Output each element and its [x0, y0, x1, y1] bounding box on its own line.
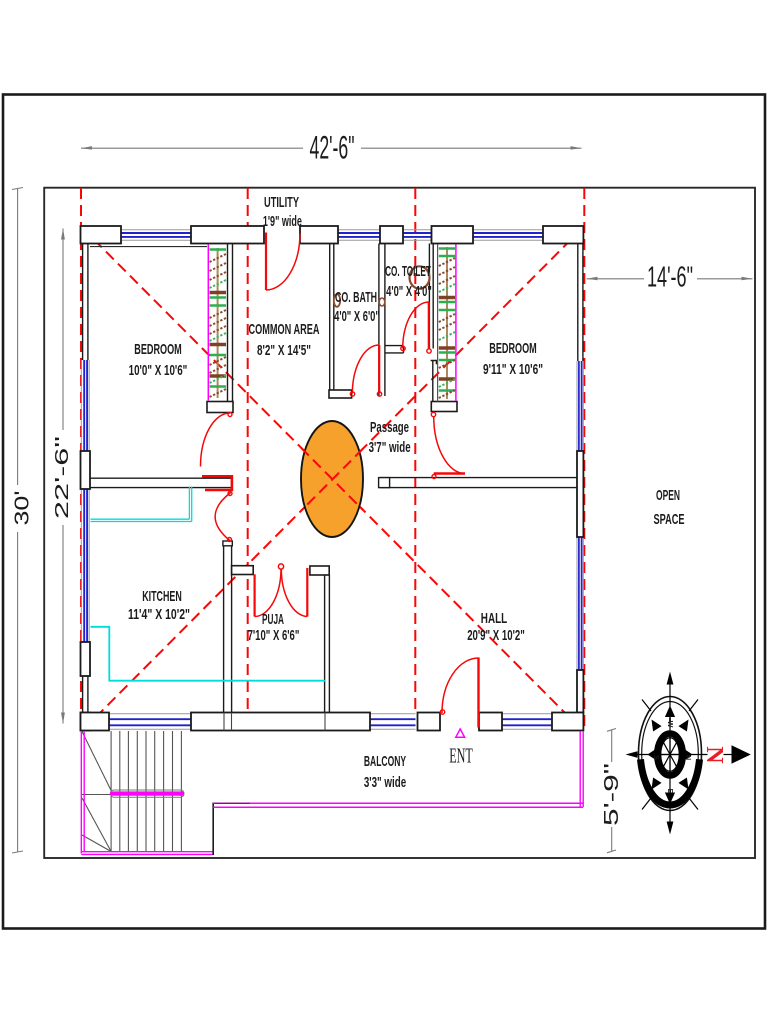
- dimension 14'-6" line: [587, 278, 645, 280]
- svg-text:SPACE: SPACE: [654, 511, 685, 528]
- middle wall left (bedroom1/kitchen): [90, 477, 232, 479]
- svg-text:OPEN: OPEN: [656, 487, 680, 504]
- wardrobe2 green hatch: [439, 284, 455, 387]
- plot boundary: [44, 188, 755, 858]
- vastu grid red dashed vertical 2: [247, 188, 249, 712]
- compass tiny letters: [652, 721, 691, 794]
- utility door swing: [266, 234, 300, 291]
- compass outer ellipse: [639, 697, 702, 811]
- staircase mid landing rail: [111, 790, 185, 797]
- bottom wall windows (blue): [109, 719, 552, 725]
- wardrobe1 end cap: [207, 402, 233, 413]
- left wall windows (blue): [84, 360, 87, 642]
- passage wall end red frame: [202, 476, 232, 490]
- toilet door leaf: [428, 302, 430, 348]
- svg-text:PUJA: PUJA: [262, 611, 284, 628]
- svg-text:UTILITY: UTILITY: [264, 194, 299, 211]
- bedroom2 door leaf: [434, 472, 465, 475]
- puja north jamb right: [310, 566, 329, 575]
- toilet door swing: [403, 302, 429, 348]
- kitchen counter cyan upper: [91, 487, 192, 522]
- svg-text:1'9" wide: 1'9" wide: [263, 213, 302, 230]
- compass second ellipse: [642, 702, 699, 806]
- compass hub spokes: [661, 738, 680, 772]
- wardrobe2 green bars: [439, 249, 455, 391]
- svg-text:22'-6": 22'-6": [52, 436, 72, 519]
- entrance marker triangle: [456, 729, 465, 737]
- brahmasthan orange ellipse: [301, 421, 363, 537]
- svg-text:14'-6": 14'-6": [647, 262, 693, 294]
- svg-text:CO. TOILET: CO. TOILET: [385, 263, 431, 280]
- staircase winder treads: [82, 732, 111, 852]
- small fixture near divider: [379, 298, 385, 306]
- compass vertical axis: [669, 684, 671, 822]
- dimension 30' line: [17, 189, 19, 485]
- junction lines on long bottom block: [224, 713, 325, 731]
- svg-text:5'-9": 5'-9": [600, 763, 623, 826]
- staircase magenta bottom edge: [81, 851, 212, 853]
- svg-text:Passage: Passage: [370, 419, 409, 436]
- vastu red dashed diagonal TL-BR: [82, 228, 583, 732]
- middle wall right (hall north): [380, 477, 577, 479]
- wardrobe2 brown hatch: [439, 258, 455, 398]
- svg-text:10'0" X 10'6": 10'0" X 10'6": [129, 362, 188, 379]
- wardrobe1 brown bars: [210, 293, 227, 377]
- wall co.bath west: [329, 244, 331, 391]
- wall bedroom1/common area: [227, 244, 229, 402]
- svg-text:CO. BATH: CO. BATH: [335, 289, 377, 306]
- right wall windows (blue): [579, 361, 582, 670]
- wardrobe2 end cap: [431, 402, 457, 412]
- red dashed diagonals over ellipse: [301, 448, 363, 511]
- right wall plain segments: [578, 244, 583, 362]
- utility door leaf: [265, 233, 267, 291]
- top wall window sills (gray): [121, 230, 543, 240]
- wall toilet east: [428, 244, 430, 349]
- puja double door left swing: [255, 569, 281, 617]
- wardrobe2 pole: [446, 247, 448, 399]
- compass big east arrow: [732, 745, 751, 763]
- wardrobe1 green hatch: [210, 280, 227, 383]
- svg-text:N: N: [701, 746, 727, 764]
- wardrobe2 magenta edge: [455, 245, 457, 402]
- left wall window sills: [81, 360, 89, 642]
- balcony parapet magenta: [213, 802, 583, 804]
- compass hub rim: [661, 738, 680, 772]
- svg-text:HALL: HALL: [481, 610, 507, 627]
- svg-text:BALCONY: BALCONY: [364, 753, 406, 770]
- left wall plain segments: [83, 244, 88, 713]
- svg-text:9'11" X 10'6": 9'11" X 10'6": [483, 361, 543, 378]
- svg-text:KITCHEN: KITCHEN: [142, 588, 182, 605]
- svg-text:N: N: [684, 755, 691, 760]
- svg-text:E: E: [666, 789, 673, 794]
- svg-text:COMMON AREA: COMMON AREA: [249, 321, 320, 338]
- co.bath wall foot block: [329, 390, 352, 398]
- svg-text:7'10" X 6'6": 7'10" X 6'6": [248, 627, 300, 644]
- svg-text:42'-6": 42'-6": [310, 129, 355, 165]
- bath door leaf: [378, 345, 380, 394]
- vastu grid red dashed vertical 4: [583, 188, 585, 731]
- top wall windows (blue): [121, 233, 543, 237]
- toilet WC fixture: [410, 266, 430, 288]
- compass thick south arc: [641, 759, 700, 805]
- svg-text:20'9" X 10'2": 20'9" X 10'2": [467, 627, 525, 644]
- compass petal arrows: [647, 706, 692, 805]
- dimension 42'-6" line: [81, 147, 303, 149]
- right wall blocks: [577, 451, 583, 713]
- bottom wall blocks: [81, 713, 584, 731]
- entrance door swing: [442, 658, 479, 713]
- puja double door right leaf: [306, 568, 308, 617]
- puja double door right swing: [281, 569, 307, 617]
- bedroom2 west wall lower piece: [431, 361, 437, 402]
- bedroom1 inner ceiling line: [90, 246, 207, 248]
- vastu red dashed diagonal TR-BL: [82, 228, 583, 732]
- wardrobe1 brown hatch: [210, 254, 227, 397]
- svg-text:3'7" wide: 3'7" wide: [369, 439, 411, 456]
- svg-text:BEDROOM: BEDROOM: [134, 341, 182, 358]
- svg-text:11'4" X 10'2": 11'4" X 10'2": [128, 606, 190, 623]
- top wall blocks: [81, 226, 584, 244]
- svg-text:30': 30': [12, 491, 34, 526]
- vastu grid red dashed vertical 1: [80, 188, 82, 731]
- wardrobe1 pole: [217, 248, 219, 398]
- dimension 22'-6" line: [62, 229, 64, 431]
- puja double door left leaf: [254, 574, 256, 616]
- right wall window sills: [577, 361, 583, 670]
- dimension 5'-9" line: [611, 730, 613, 762]
- bottom wall window sills: [109, 714, 552, 730]
- wardrobe2 left edge: [437, 245, 439, 402]
- stair/balcony divider: [212, 803, 214, 856]
- kitchen door swing: [215, 493, 231, 541]
- staircase risers: [111, 731, 181, 852]
- svg-text:W: W: [666, 721, 673, 728]
- svg-text:S: S: [652, 755, 659, 760]
- puja east wall: [324, 575, 326, 713]
- svg-text:BEDROOM: BEDROOM: [489, 340, 537, 357]
- wardrobe2 brown bars: [439, 298, 455, 380]
- toilet south wall / shelf: [385, 345, 404, 347]
- bedroom2 door swing: [434, 416, 465, 474]
- svg-text:4'0" X 4'0": 4'0" X 4'0": [386, 283, 432, 300]
- svg-text:8'2" X 14'5": 8'2" X 14'5": [257, 342, 311, 359]
- kitchen counter cyan lower: [91, 627, 326, 681]
- left wall blocks: [81, 451, 91, 731]
- bath door swing: [352, 345, 379, 394]
- compass horizontal axis: [637, 754, 708, 756]
- wardrobe1 magenta edge: [207, 245, 209, 401]
- svg-text:3'3" wide: 3'3" wide: [364, 774, 406, 791]
- compass hub ring: [657, 734, 683, 776]
- svg-text:ENT: ENT: [449, 744, 473, 768]
- compass diagonal ticks: [642, 700, 698, 810]
- bath basin fixture: [334, 294, 340, 307]
- balcony east parapet magenta: [579, 731, 581, 807]
- wardrobe1 green bars: [210, 250, 227, 387]
- staircase magenta left edge: [80, 731, 82, 854]
- entrance door leaf: [477, 658, 479, 728]
- puja west wall: [223, 541, 225, 713]
- vastu grid red dashed vertical 3: [414, 188, 416, 712]
- bedroom1 door swing: [201, 413, 231, 467]
- puja north jamb left: [232, 566, 254, 575]
- wall bath/toilet divider: [378, 244, 380, 397]
- svg-text:4'0" X 6'0": 4'0" X 6'0": [334, 308, 380, 325]
